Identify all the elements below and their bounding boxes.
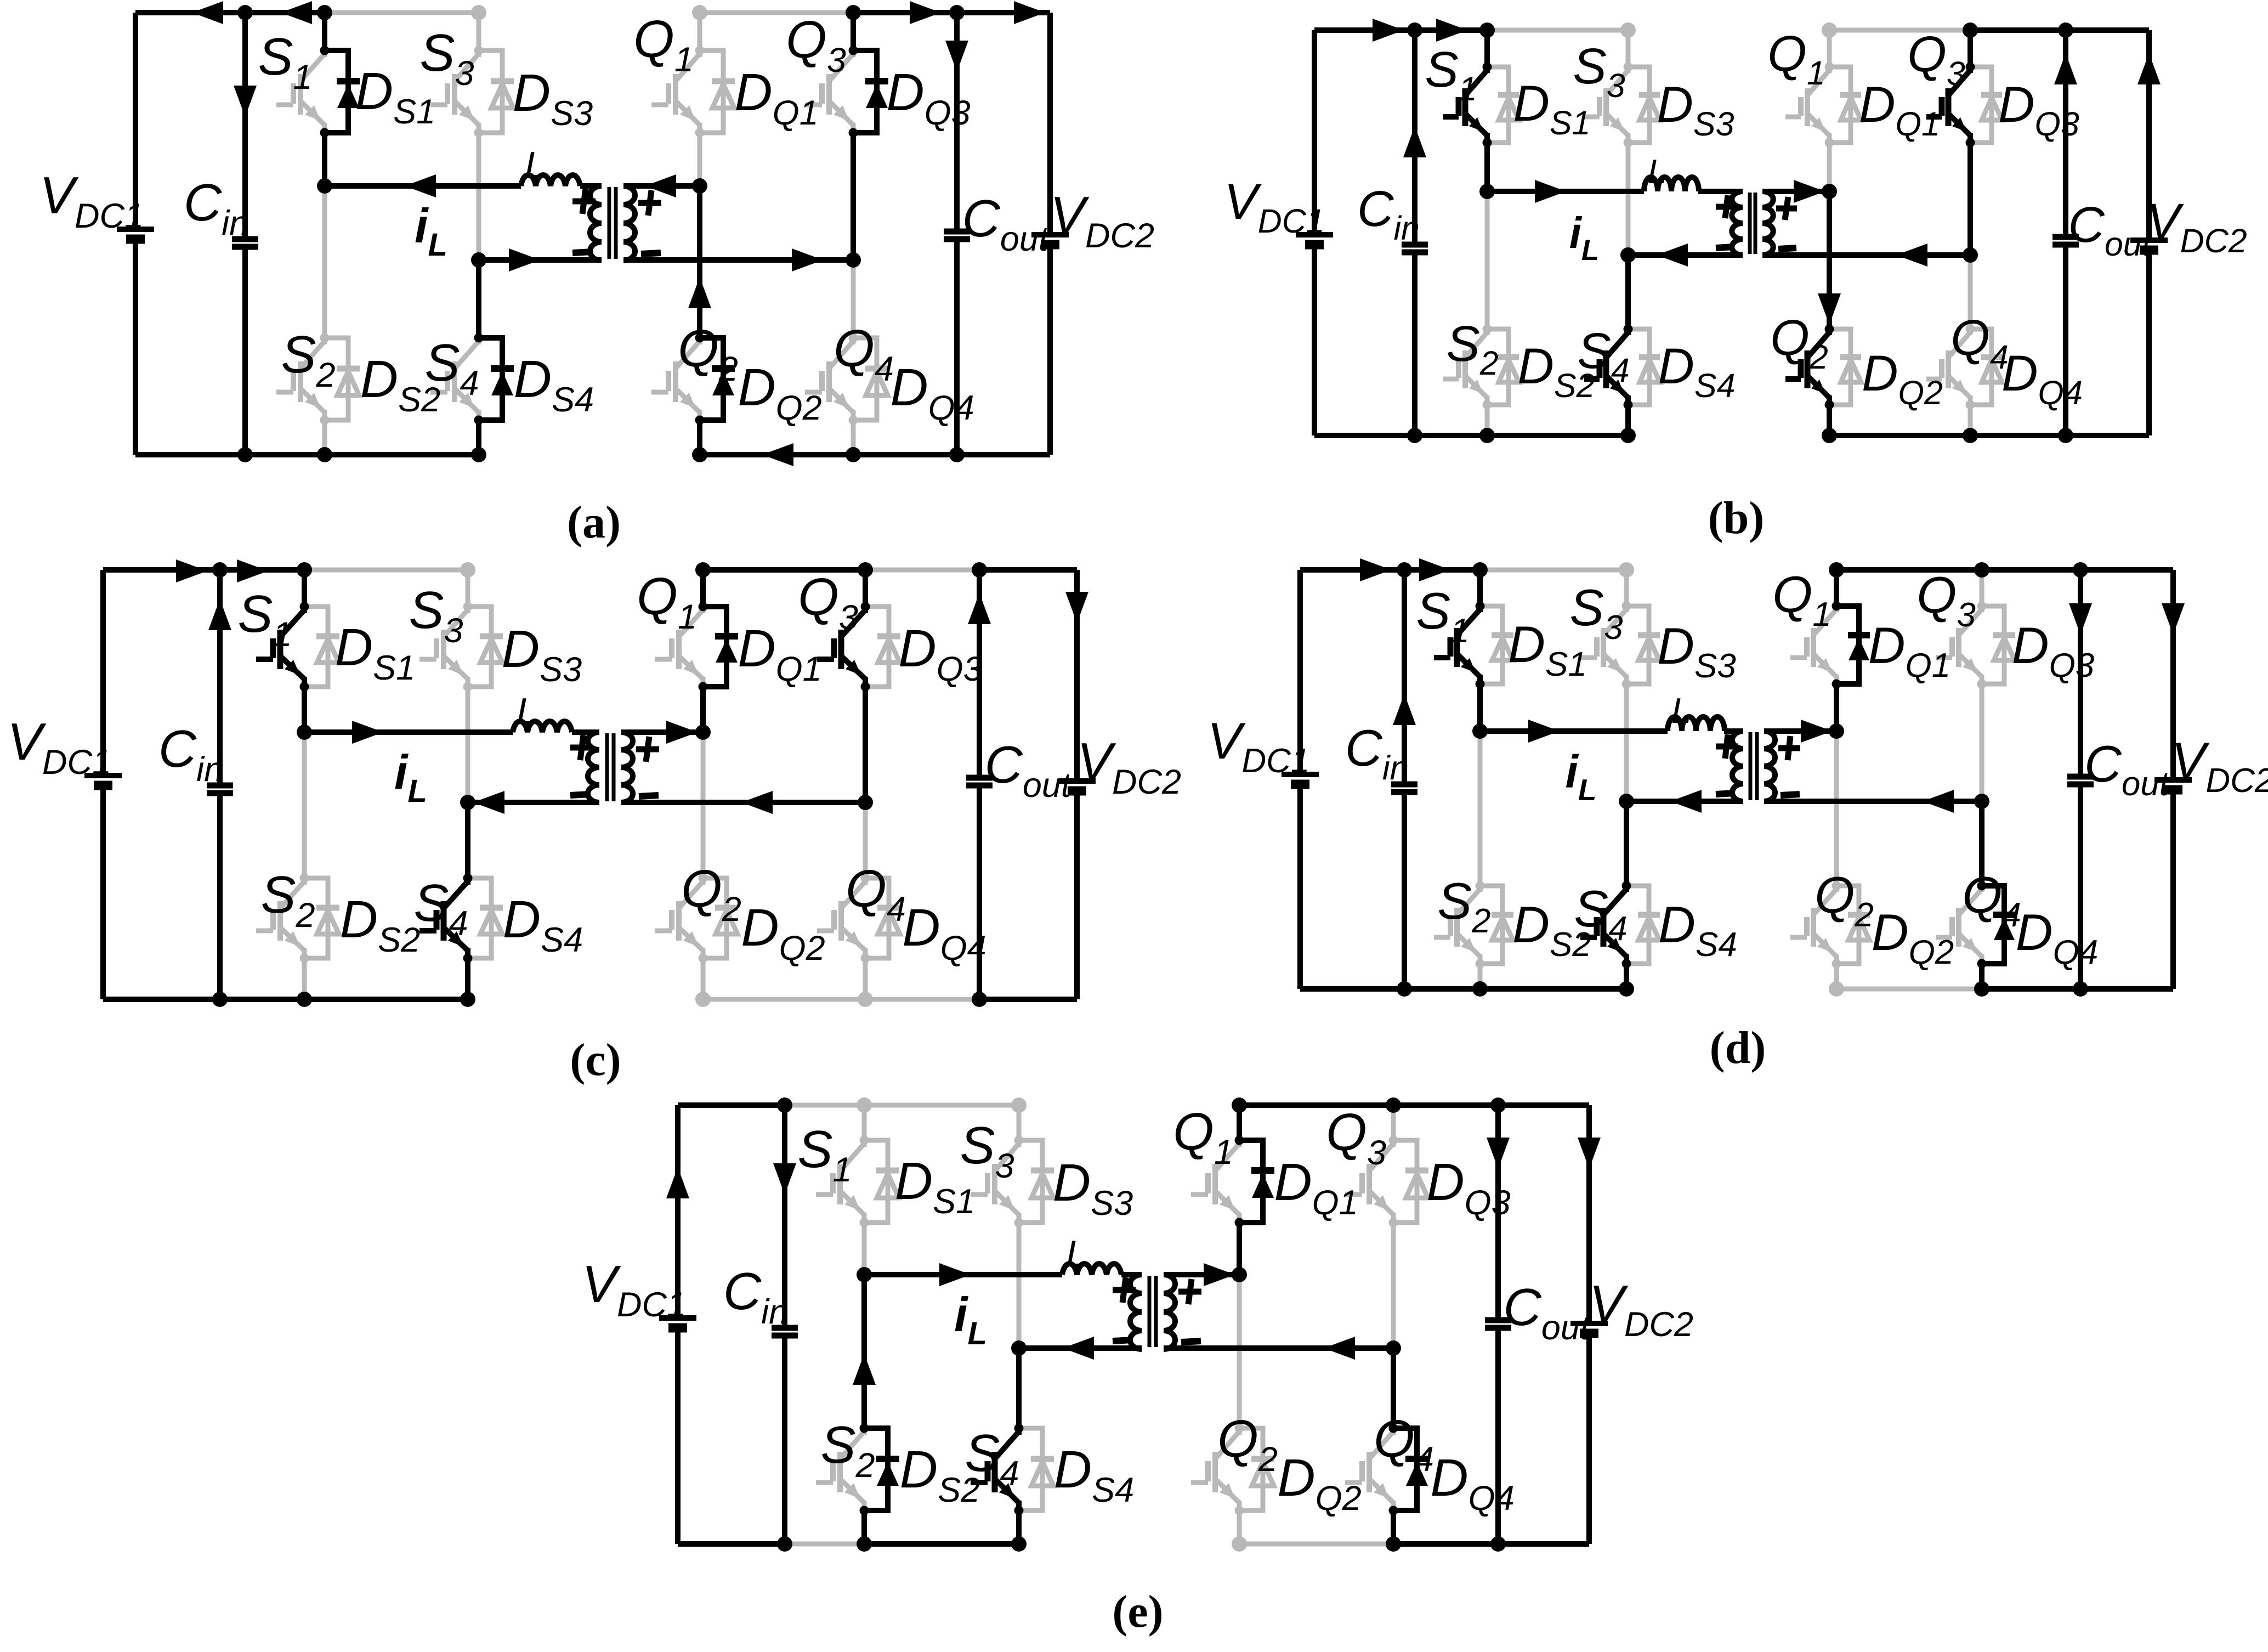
wire legD lower (e) — [1391, 1348, 1396, 1428]
inductor L (a) — [521, 175, 580, 186]
label Q1 (c) — [637, 567, 697, 636]
battery VDC1 (a) — [117, 229, 154, 239]
wire secondary top (d) — [1764, 728, 1836, 734]
label S1 (b) — [1425, 42, 1477, 108]
diode DQ1 (inactive, b) — [1825, 63, 1862, 148]
label iL (a) — [415, 199, 447, 263]
label S4 (c) — [413, 874, 468, 943]
wire primary return (c) — [468, 800, 599, 805]
wire legC upper (e) — [1237, 1105, 1242, 1140]
wire Cout branch (c) — [977, 570, 982, 999]
diode DS3 (inactive, c) — [463, 602, 503, 692]
diode DS2 (inactive, b) — [1483, 325, 1519, 410]
label L (c) — [517, 691, 537, 732]
label L (d) — [1671, 691, 1691, 731]
wire left rail (d) — [1297, 570, 1303, 989]
label VDC2 (e) — [1589, 1275, 1693, 1344]
wire Cin branch (a) — [242, 13, 248, 455]
transistor Q3 (IGBT, inactive, d) — [1936, 606, 1982, 684]
Cin current arrow (c) — [208, 599, 231, 630]
wire legA lower gray (d) — [1478, 731, 1483, 886]
label DS3 (e) — [1053, 1153, 1133, 1223]
wire bottom rail right gray segment (c) — [703, 997, 865, 1002]
label Q1 (d) — [1772, 565, 1832, 633]
transistor S1 (IGBT, conducting, d) — [1434, 606, 1480, 684]
transistor Q1 (IGBT, inactive, a) — [651, 50, 700, 133]
diode DS1 (inactive, b) — [1483, 63, 1519, 148]
svg-text:L: L — [525, 144, 546, 186]
capacitor Cout (d) — [2067, 777, 2094, 784]
wire legB mid gray (a) — [477, 133, 481, 260]
label S1 (d) — [1416, 582, 1469, 650]
svg-text:L: L — [1066, 1233, 1087, 1275]
inductor L (d) — [1668, 717, 1725, 731]
wire legC lower (a) — [697, 186, 702, 338]
label DS2 (d) — [1512, 896, 1591, 964]
label VDC1 (e) — [582, 1255, 686, 1324]
wire left rail (c) — [100, 570, 106, 999]
label S1 (c) — [237, 585, 292, 654]
battery VDC1 (e) — [659, 1318, 696, 1328]
diode DQ4 (conducting, e) — [1389, 1424, 1429, 1515]
transistor S2 (IGBT, inactive, b) — [1443, 329, 1487, 405]
wire legB lower (e) — [1016, 1348, 1022, 1428]
wire legC mid gray (a) — [698, 133, 702, 186]
battery VDC2 (a) — [1031, 235, 1069, 245]
label DS2 (e) — [900, 1440, 980, 1509]
label VDC1 (a) — [39, 166, 144, 235]
diode DQ1 (conducting, d) — [1832, 602, 1870, 689]
battery VDC1 (c) — [84, 776, 122, 785]
label S3 (a) — [419, 24, 474, 93]
transistor S1 (IGBT, conducting, b) — [1443, 67, 1487, 143]
wire legB lower (a) — [476, 260, 481, 338]
wire inductor link (a) — [325, 183, 602, 189]
junction nodes (d) — [1397, 562, 2088, 997]
diode DQ2 (inactive, d) — [1832, 881, 1870, 969]
wire top rail left (c) — [103, 567, 304, 573]
diode DQ4 (conducting, d) — [1977, 881, 2016, 969]
wire legB mid gray (c) — [466, 687, 470, 802]
wire Cin branch (e) — [782, 1105, 787, 1544]
wire legB mid gray (b) — [1626, 143, 1631, 255]
label DQ1 (d) — [1868, 616, 1951, 684]
svg-text:(c): (c) — [570, 1034, 621, 1085]
label DQ4 (a) — [890, 358, 974, 427]
label Q2 (a) — [678, 319, 738, 388]
transistor S3 (IGBT, inactive, e) — [971, 1140, 1019, 1223]
label VDC2 (a) — [1050, 186, 1154, 255]
wire legA upper (d) — [1477, 570, 1483, 606]
wire legA lower gray (a) — [322, 186, 327, 338]
label DQ4 (b) — [2001, 346, 2083, 411]
transistor Q4 (IGBT, inactive, e) — [1345, 1428, 1393, 1510]
wire legD bottom (e) — [1391, 1510, 1396, 1544]
wire left rail (b) — [1312, 30, 1317, 435]
wire legA mid (a) — [322, 133, 327, 186]
label Q3 (b) — [1907, 26, 1965, 92]
wire bottom rail right (e) — [1393, 1541, 1589, 1547]
label panel letter (d) — [1710, 1022, 1766, 1073]
wire legB upper gray (a) — [471, 5, 486, 50]
label DS4 (e) — [1054, 1440, 1134, 1509]
wire legD upper (a) — [850, 13, 856, 50]
label panel letter (c) — [570, 1034, 621, 1085]
wire legD upper (c) — [863, 570, 868, 607]
wire primary return (b) — [1628, 252, 1743, 258]
diode DQ3 (inactive, d) — [1977, 602, 2016, 689]
wire inductor link (d) — [1480, 728, 1743, 734]
wire bottom rail left (a) — [135, 452, 479, 457]
label panel letter (a) — [567, 497, 621, 548]
diode DS1 (conducting, a) — [320, 46, 360, 138]
label Q1 (a) — [633, 10, 694, 79]
label DQ3 (e) — [1426, 1153, 1510, 1222]
label DS4 (b) — [1658, 338, 1735, 404]
battery VDC2 (b) — [2130, 240, 2168, 250]
diode DS3 (inactive, d) — [1622, 602, 1660, 689]
wire primary return (d) — [1626, 799, 1743, 804]
svg-text:L: L — [1671, 691, 1691, 731]
diode DS3 (inactive, e) — [1014, 1136, 1054, 1227]
wire secondary bottom (b) — [1762, 252, 1970, 258]
label DS1 (b) — [1513, 76, 1590, 142]
wire legC upper gray (b) — [1822, 22, 1837, 67]
transistor Q1 (IGBT, inactive, b) — [1785, 67, 1829, 143]
wire inductor link (b) — [1487, 189, 1743, 194]
label S2 (b) — [1446, 316, 1498, 382]
label Q2 (c) — [681, 859, 741, 929]
label DS2 (b) — [1517, 338, 1595, 404]
diode DQ4 (inactive, a) — [849, 333, 889, 425]
wire legA bottom gray (a) — [322, 420, 327, 455]
wire legC upper (c) — [700, 570, 706, 607]
diode DS4 (inactive, e) — [1014, 1424, 1054, 1515]
diode DS1 (inactive, d) — [1476, 602, 1514, 689]
junction nodes (b) — [1407, 22, 2073, 443]
svg-text:L: L — [1648, 153, 1666, 191]
label DQ1 (b) — [1859, 77, 1940, 143]
label DS2 (a) — [360, 350, 440, 419]
transistor S3 (IGBT, inactive, d) — [1580, 606, 1626, 684]
wire legA bottom gray (d) — [1478, 964, 1483, 989]
Cin current arrow (b) — [1403, 126, 1426, 157]
capacitor Cin (a) — [232, 239, 258, 247]
wire legA lower gray (c) — [302, 732, 307, 878]
current direction arrows (a) — [192, 1, 1045, 466]
wire legC lower gray (e) — [1237, 1275, 1242, 1428]
wire legC bottom gray (d) — [1829, 964, 1844, 997]
wire bottom rail left (e) — [678, 1541, 1019, 1547]
label iL (e) — [954, 1287, 987, 1351]
wire legC bottom gray (c) — [695, 958, 711, 1007]
wire top rail right (b) — [1970, 27, 2149, 33]
wire bottom rail right (c) — [979, 997, 1077, 1002]
label S4 (b) — [1577, 323, 1629, 389]
label DQ2 (d) — [1872, 903, 1954, 971]
label VDC2 (c) — [1077, 732, 1181, 801]
label S4 (e) — [965, 1424, 1019, 1493]
label S2 (e) — [820, 1416, 875, 1485]
diode DS1 (inactive, c) — [300, 602, 340, 692]
label Q4 (b) — [1951, 310, 2009, 376]
wire legA bottom (e) — [861, 1510, 867, 1544]
svg-text:(b): (b) — [1708, 493, 1765, 544]
label panel letter (e) — [1112, 1586, 1163, 1637]
diode DQ2 (inactive, c) — [699, 874, 739, 963]
label DQ2 (e) — [1277, 1449, 1361, 1518]
wire legA lower (e) — [861, 1275, 867, 1428]
transformer polarity marks (e) — [1113, 1277, 1201, 1342]
diode DQ2 (inactive, e) — [1235, 1424, 1275, 1515]
diode DS2 (inactive, c) — [300, 874, 340, 963]
diode DS4 (inactive, c) — [463, 874, 503, 963]
svg-text:L: L — [517, 691, 537, 732]
label Q4 (c) — [846, 859, 906, 929]
transistor S1 (IGBT, inactive, e) — [816, 1140, 864, 1223]
battery VDC2 (e) — [1570, 1323, 1608, 1333]
wire legD mid gray (d) — [1980, 684, 1984, 801]
diode DQ3 (inactive, c) — [861, 602, 901, 692]
wire Cout branch (a) — [954, 13, 960, 455]
wire legA upper (b) — [1484, 30, 1490, 67]
wire legC mid (d) — [1834, 684, 1839, 731]
wire legB bottom (d) — [1624, 964, 1629, 989]
wire bottom rail gray segment (e) — [785, 1542, 864, 1547]
label DS1 (c) — [335, 618, 415, 687]
label S2 (d) — [1437, 872, 1490, 940]
transistor Q2 (IGBT, inactive, d) — [1790, 886, 1836, 964]
wire secondary top (b) — [1762, 189, 1829, 194]
wire legB lower (d) — [1624, 801, 1629, 886]
wire legB upper gray (d) — [1619, 562, 1634, 606]
transistor Q1 (IGBT, inactive, d) — [1790, 606, 1836, 684]
current direction arrows (b) — [1373, 19, 2161, 325]
wire top rail right (e) — [1239, 1102, 1589, 1108]
wire top rail left gray segment (b) — [1487, 28, 1628, 33]
wire legA bottom gray (b) — [1485, 405, 1490, 435]
wire top rail left gray segment (e) — [785, 1103, 1019, 1108]
label DS4 (a) — [514, 350, 594, 419]
diode DQ4 (inactive, c) — [861, 874, 901, 963]
wire top rail left (d) — [1300, 567, 1480, 573]
wire Cin branch (b) — [1412, 30, 1417, 435]
capacitor Cin (b) — [1402, 245, 1428, 252]
transistor Q4 (IGBT, inactive, d) — [1936, 886, 1982, 964]
wire legB upper gray (c) — [460, 562, 475, 607]
label DQ4 (e) — [1430, 1449, 1514, 1518]
inductor L (e) — [1062, 1264, 1121, 1275]
label DQ3 (d) — [2012, 616, 2095, 684]
capacitor Cout (a) — [944, 231, 970, 239]
Cin current arrow (d) — [1393, 694, 1416, 725]
transistor S3 (IGBT, inactive, a) — [430, 50, 479, 133]
label S3 (c) — [409, 581, 463, 650]
current direction arrows (e) — [666, 1138, 1601, 1385]
wire legD mid (a) — [850, 133, 856, 260]
wire Cout branch (e) — [1495, 1105, 1501, 1544]
svg-text:(d): (d) — [1710, 1022, 1766, 1073]
battery VDC2 (c) — [1058, 781, 1096, 791]
wire legB upper gray (e) — [1011, 1097, 1027, 1140]
wire bottom rail right gray segment (e) — [1239, 1542, 1393, 1547]
wire secondary bottom (e) — [1164, 1345, 1393, 1351]
label Cout (b) — [2068, 197, 2152, 263]
wire legA mid gray (e) — [862, 1223, 867, 1275]
wire legC mid (e) — [1237, 1223, 1242, 1275]
label Cout (a) — [962, 189, 1050, 258]
wire legB lower (b) — [1625, 255, 1631, 329]
wire legC bottom gray (e) — [1232, 1510, 1247, 1552]
wire legC lower gray (d) — [1834, 731, 1839, 886]
label S2 (a) — [281, 325, 335, 394]
label VDC1 (c) — [7, 712, 111, 782]
label S1 (a) — [258, 27, 312, 97]
label S2 (c) — [260, 865, 315, 935]
wire secondary top (a) — [623, 183, 700, 189]
diode DQ1 (conducting, e) — [1235, 1136, 1275, 1227]
wire legB bottom (a) — [476, 420, 481, 455]
wire inductor link (e) — [864, 1272, 1142, 1277]
diode DQ3 (conducting, a) — [849, 46, 889, 138]
transistor Q4 (IGBT, inactive, a) — [805, 338, 853, 420]
wire left rail (e) — [675, 1105, 681, 1544]
label panel letter (b) — [1708, 493, 1765, 544]
label L (b) — [1648, 153, 1666, 191]
label DS4 (d) — [1658, 896, 1737, 964]
label DQ3 (b) — [1998, 77, 2079, 143]
wire top rail right (c) — [703, 567, 1077, 573]
transistor S3 (IGBT, inactive, b) — [1584, 67, 1628, 143]
transformer polarity marks (c) — [570, 735, 659, 796]
wire legA mid (c) — [302, 687, 307, 732]
wire bottom rail right (b) — [1829, 433, 2149, 438]
label DQ1 (e) — [1274, 1153, 1358, 1222]
wire legA bottom gray (c) — [302, 958, 307, 999]
transistor Q2 (IGBT, inactive, e) — [1191, 1428, 1239, 1510]
wire top rail left (e) — [678, 1102, 785, 1108]
battery VDC1 (b) — [1296, 235, 1333, 245]
transistor Q3 (IGBT, conducting, b) — [1926, 67, 1970, 143]
transistor S3 (IGBT, inactive, c) — [419, 607, 468, 687]
transformer (d) — [1732, 731, 1775, 801]
transistor Q3 (IGBT, inactive, a) — [805, 50, 853, 133]
label Cin (c) — [158, 720, 223, 789]
wire top rail right gray segment 2 (c) — [865, 568, 979, 573]
wire legD lower gray (b) — [1968, 255, 1973, 329]
diode DS3 (inactive, b) — [1624, 63, 1660, 148]
label Cout (e) — [1504, 1278, 1591, 1347]
label Q2 (b) — [1770, 310, 1828, 376]
wire legB upper gray (b) — [1620, 22, 1636, 67]
label S3 (d) — [1569, 579, 1623, 647]
wire legC upper (d) — [1834, 570, 1839, 606]
wire right rail (d) — [2170, 570, 2176, 989]
inductor L (b) — [1644, 177, 1699, 191]
transistor Q3 (IGBT, inactive, e) — [1345, 1140, 1393, 1223]
label Cout (c) — [985, 736, 1072, 805]
label Cin (e) — [723, 1262, 788, 1331]
transformer (c) — [588, 732, 633, 802]
wire legB mid gray (e) — [1017, 1223, 1022, 1348]
wire right rail (b) — [2146, 30, 2152, 435]
wire bottom rail right (d) — [1982, 986, 2173, 992]
wire Cin branch (d) — [1402, 570, 1407, 989]
wire legD bottom gray (b) — [1968, 405, 1973, 435]
label Cin (d) — [1345, 719, 1409, 787]
label DQ2 (b) — [1862, 346, 1943, 411]
wire legA mid (b) — [1484, 143, 1490, 191]
wire legD mid (b) — [1968, 143, 1973, 255]
wire right rail (a) — [1047, 13, 1053, 455]
wire top rail left (b) — [1314, 27, 1487, 33]
transistor S4 (IGBT, conducting, d) — [1580, 886, 1626, 964]
wire top rail left (a) — [135, 10, 325, 15]
transformer polarity marks (b) — [1716, 195, 1797, 249]
wire legB bottom (e) — [1016, 1510, 1022, 1544]
label Cout (d) — [2084, 735, 2170, 803]
wire legA upper gray (e) — [857, 1097, 872, 1140]
wire legB lower (c) — [465, 802, 470, 878]
junction nodes (c) — [212, 562, 987, 1007]
wire legC mid gray (b) — [1827, 143, 1832, 191]
wire legB mid gray (d) — [1624, 684, 1629, 801]
wire legD upper gray (e) — [1391, 1105, 1396, 1140]
wire Cout branch (d) — [2078, 570, 2083, 989]
label DS1 (d) — [1508, 615, 1587, 683]
battery VDC2 (d) — [2154, 780, 2192, 790]
label Q3 (a) — [786, 10, 846, 80]
label DQ1 (a) — [734, 63, 818, 132]
label Q3 (c) — [798, 568, 858, 637]
transistor Q2 (IGBT, inactive, a) — [651, 338, 700, 420]
label DS4 (c) — [503, 890, 583, 959]
wire secondary bottom (d) — [1764, 799, 1982, 804]
junction nodes (a) — [237, 5, 965, 462]
diode DS2 (conducting, e) — [860, 1424, 900, 1515]
label Q4 (e) — [1374, 1410, 1434, 1479]
transformer (e) — [1130, 1275, 1175, 1349]
diode DQ3 (inactive, e) — [1389, 1136, 1429, 1227]
transistor S4 (IGBT, conducting, e) — [971, 1428, 1019, 1510]
transformer polarity marks (d) — [1716, 734, 1800, 795]
label DQ4 (c) — [902, 898, 986, 968]
inductor L (c) — [513, 721, 572, 732]
wire primary return (a) — [479, 257, 602, 263]
label S4 (d) — [1574, 880, 1627, 948]
label DQ3 (a) — [886, 63, 970, 132]
label DS1 (e) — [895, 1152, 975, 1221]
diode DS2 (inactive, d) — [1476, 881, 1514, 969]
label Q3 (d) — [1917, 566, 1976, 634]
label DS2 (c) — [340, 890, 420, 959]
wire legB bottom (c) — [465, 958, 470, 999]
capacitor Cin (e) — [772, 1328, 798, 1336]
transistor S2 (IGBT, inactive, d) — [1434, 886, 1480, 964]
wire primary return (e) — [1019, 1345, 1142, 1351]
label L (e) — [1066, 1233, 1087, 1275]
wire legA mid (d) — [1477, 684, 1483, 731]
wire legC mid (c) — [700, 687, 706, 732]
Cin current arrow (a) — [234, 86, 257, 117]
wire bottom rail right gray segment 2 (c) — [865, 997, 979, 1002]
wire top rail right gray segment (b) — [1829, 28, 1970, 33]
wire legC lower (b) — [1827, 191, 1832, 329]
transistor Q2 (IGBT, conducting, b) — [1785, 329, 1829, 405]
transistor Q4 (IGBT, inactive, b) — [1926, 329, 1970, 405]
wire legA lower gray (b) — [1485, 191, 1490, 329]
wire right rail (e) — [1586, 1105, 1592, 1544]
